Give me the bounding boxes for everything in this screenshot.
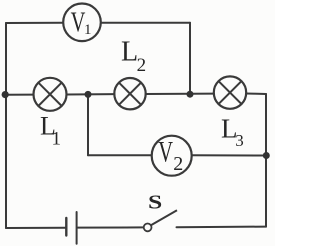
svg-text:S: S <box>148 191 162 213</box>
voltmeter U V2 <box>152 135 192 176</box>
wire middle segment 4 <box>246 93 266 96</box>
wire V2 branch horizontal right <box>192 154 267 156</box>
label L1 <box>40 112 61 150</box>
wire middle segment 3 <box>146 93 215 95</box>
junction node B (between L1 and L2) <box>85 91 92 98</box>
svg-text:2: 2 <box>173 153 183 175</box>
svg-text:L: L <box>121 37 138 68</box>
wire right branch vertical <box>189 23 191 95</box>
svg-text:3: 3 <box>235 131 244 150</box>
wire middle segment 2 <box>67 93 115 95</box>
wire V2 branch horizontal left <box>88 154 152 156</box>
svg-text:1: 1 <box>84 22 92 38</box>
label L3 <box>221 114 244 150</box>
wire bottom-left horizontal <box>6 227 66 229</box>
wire V2 branch vertical <box>87 95 89 156</box>
wire middle segment 1 <box>5 94 34 96</box>
wire bottom-right horizontal <box>177 226 267 229</box>
svg-text:2: 2 <box>137 55 147 76</box>
svg-text:V: V <box>158 135 173 169</box>
lamp L1 <box>34 78 67 111</box>
junction node C (between L2 and L3) <box>187 91 194 98</box>
wire top-left horizontal <box>6 22 64 24</box>
wire far-right vertical <box>265 94 267 227</box>
wire left vertical <box>5 23 7 228</box>
lamp L3 <box>214 76 246 108</box>
junction node D (right, V2 tap) <box>263 152 270 159</box>
voltmeter U V1 <box>63 4 101 42</box>
wire battery to switch <box>77 226 144 228</box>
label L2 <box>121 37 146 76</box>
lamp L2 <box>114 78 145 109</box>
switch S <box>144 210 177 231</box>
svg-text:1: 1 <box>52 128 62 149</box>
junction node A (left) <box>2 91 9 98</box>
wire top-right horizontal <box>101 22 191 24</box>
battery cell plates <box>66 212 76 244</box>
